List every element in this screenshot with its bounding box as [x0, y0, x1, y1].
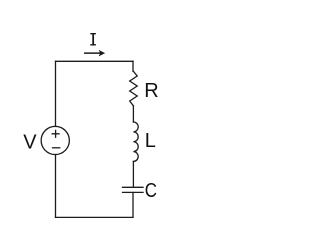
svg-text:C: C: [145, 180, 157, 202]
svg-text:V: V: [23, 131, 37, 153]
svg-text:L: L: [145, 130, 156, 152]
svg-text:R: R: [144, 80, 158, 102]
